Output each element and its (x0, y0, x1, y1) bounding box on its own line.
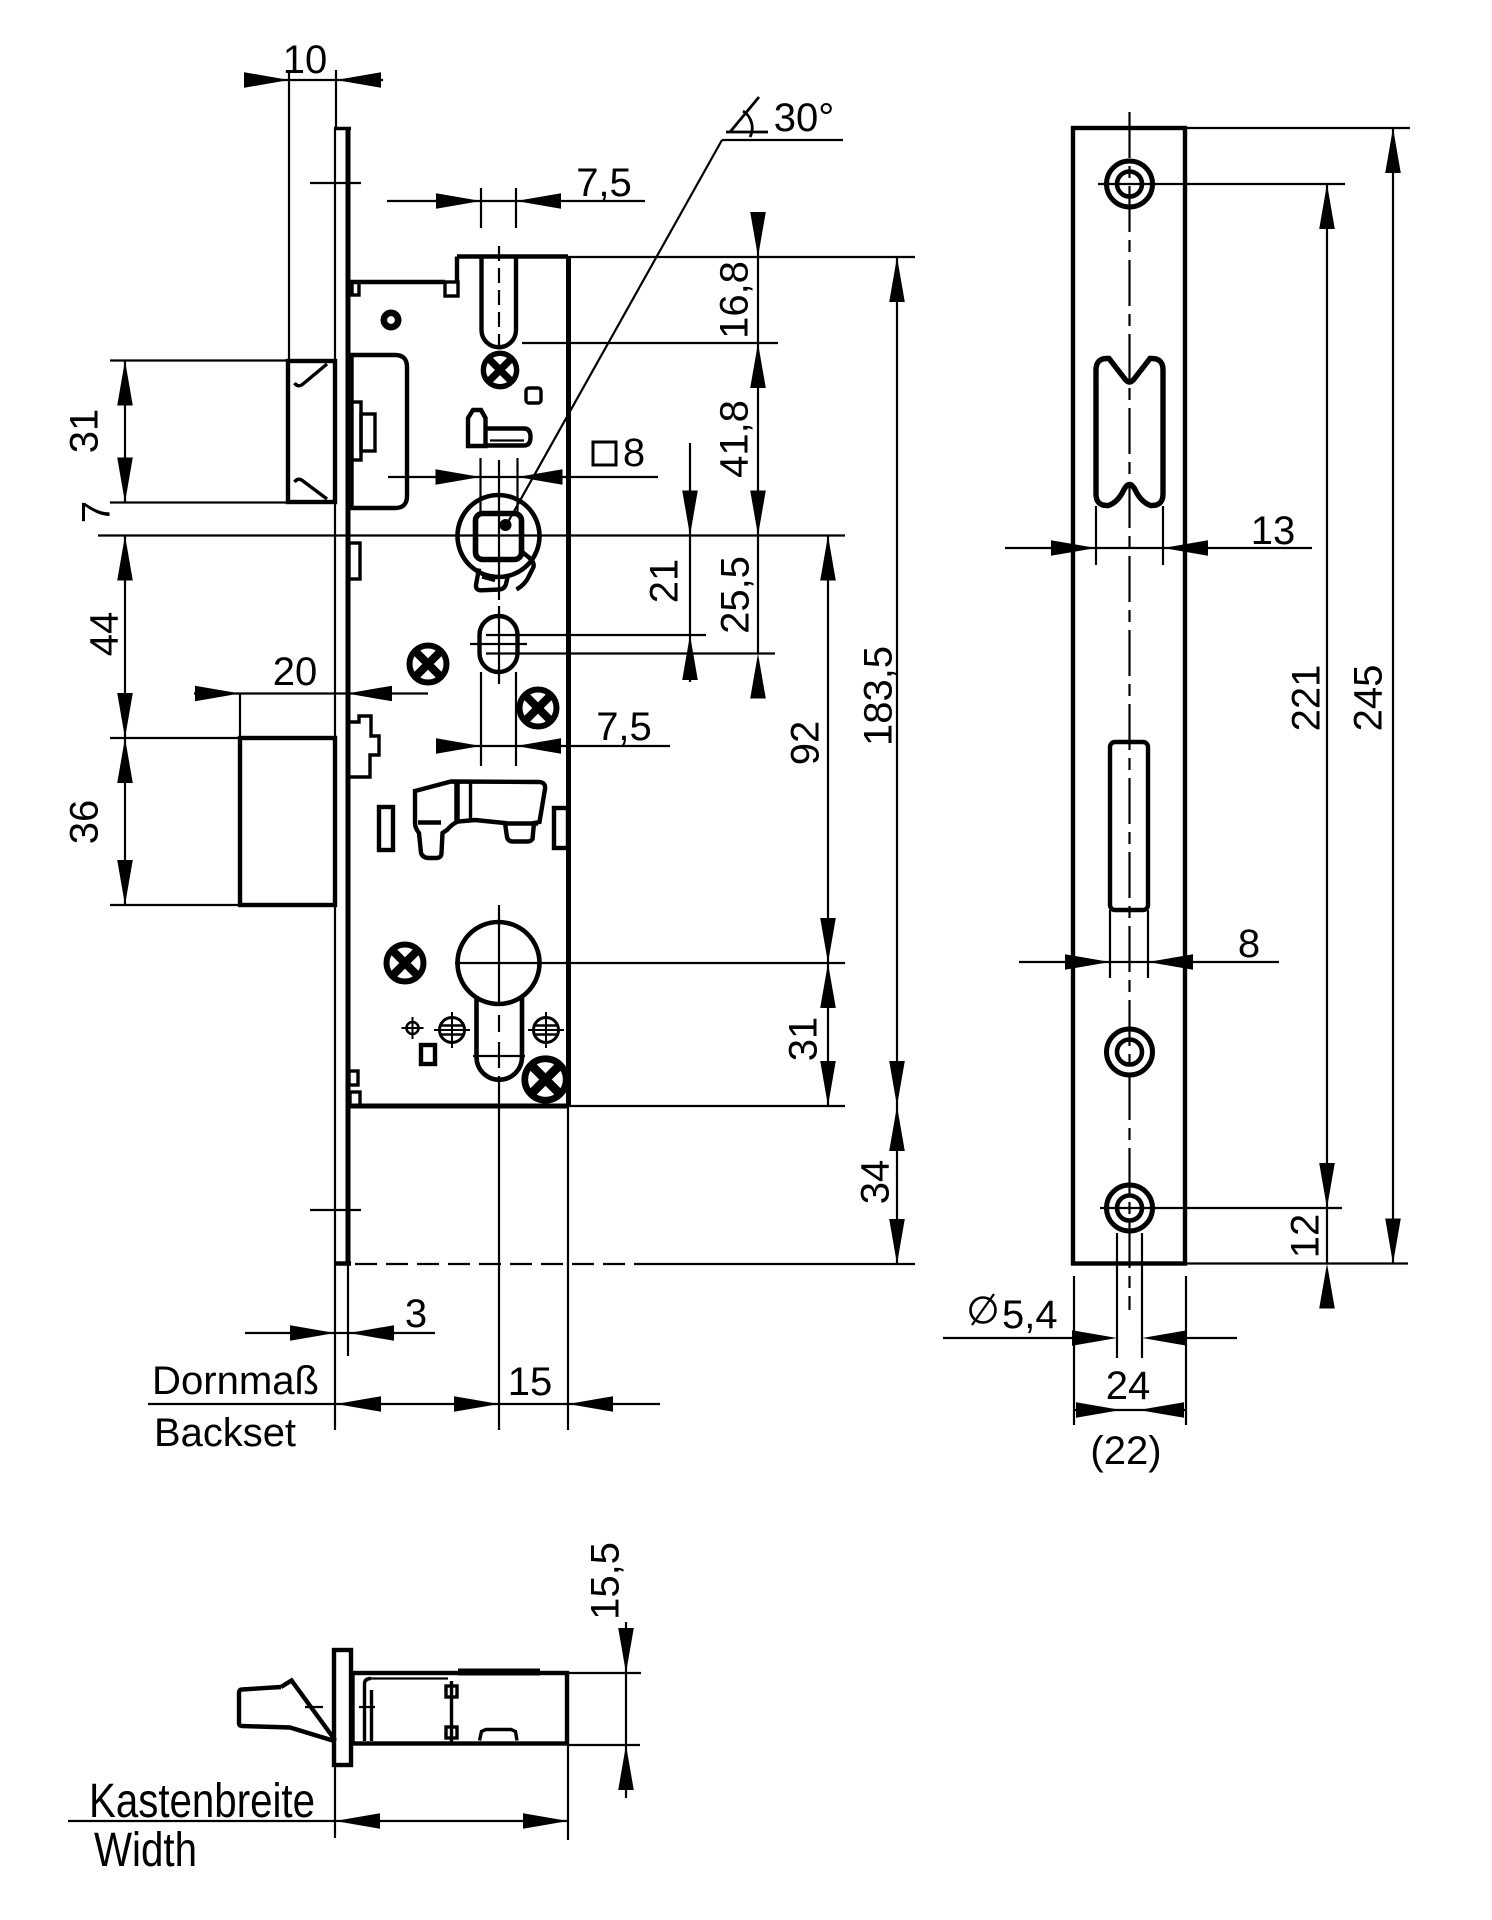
svg-text:20: 20 (273, 650, 318, 694)
svg-text:245: 245 (1347, 665, 1391, 732)
svg-text:25,5: 25,5 (714, 556, 758, 634)
svg-text:31: 31 (782, 1017, 826, 1062)
svg-text:21: 21 (643, 559, 687, 604)
svg-text:8: 8 (623, 431, 645, 475)
svg-text:44: 44 (83, 612, 127, 657)
svg-text:Backset: Backset (154, 1411, 296, 1455)
svg-text:10: 10 (283, 38, 328, 82)
svg-text:41,8: 41,8 (713, 400, 757, 478)
svg-text:3: 3 (405, 1292, 427, 1336)
svg-text:(22): (22) (1090, 1429, 1161, 1473)
svg-text:Dornmaß: Dornmaß (152, 1359, 319, 1403)
svg-text:30°: 30° (774, 96, 835, 140)
svg-text:15: 15 (508, 1360, 553, 1404)
svg-text:31: 31 (63, 409, 107, 454)
svg-text:13: 13 (1251, 509, 1296, 553)
svg-text:92: 92 (784, 721, 828, 766)
svg-text:16,8: 16,8 (713, 261, 757, 339)
svg-text:221: 221 (1285, 665, 1329, 732)
svg-text:Width: Width (94, 1824, 197, 1877)
svg-text:12: 12 (1284, 1214, 1328, 1259)
svg-text:7,5: 7,5 (596, 705, 652, 749)
svg-text:Kastenbreite: Kastenbreite (89, 1775, 315, 1828)
svg-text:183,5: 183,5 (857, 646, 901, 746)
svg-text:24: 24 (1106, 1364, 1151, 1408)
svg-text:7,5: 7,5 (576, 161, 632, 205)
svg-text:34: 34 (854, 1160, 898, 1205)
svg-text:7: 7 (75, 501, 119, 523)
svg-text:15,5: 15,5 (584, 1542, 628, 1620)
svg-text:5,4: 5,4 (1002, 1293, 1058, 1337)
svg-text:36: 36 (63, 800, 107, 845)
svg-text:8: 8 (1238, 922, 1260, 966)
